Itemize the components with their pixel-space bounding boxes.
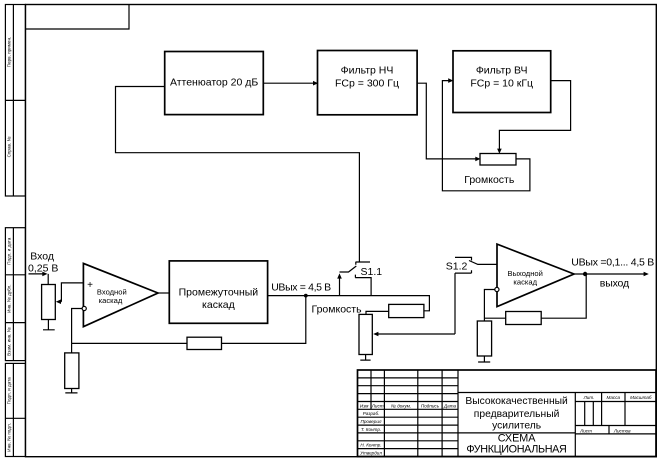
svg-text:Масштаб: Масштаб bbox=[630, 395, 652, 400]
svg-text:Подпись: Подпись bbox=[421, 403, 440, 408]
svg-text:Подп. и дата: Подп. и дата bbox=[7, 377, 12, 405]
svg-text:ФУНКЦИОНАЛЬНАЯ: ФУНКЦИОНАЛЬНАЯ bbox=[466, 444, 566, 456]
svg-text:выход: выход bbox=[600, 277, 629, 289]
svg-text:предварительный: предварительный bbox=[474, 409, 560, 420]
svg-text:UВых = 4,5 В: UВых = 4,5 В bbox=[271, 281, 331, 293]
svg-text:Громкость: Громкость bbox=[312, 304, 363, 316]
svg-text:Масса: Масса bbox=[607, 395, 621, 400]
svg-text:Фильтр НЧ: Фильтр НЧ bbox=[341, 64, 394, 76]
svg-text:+: + bbox=[87, 280, 93, 291]
svg-text:Вход: Вход bbox=[30, 251, 54, 263]
svg-text:Листов: Листов bbox=[613, 428, 631, 433]
svg-text:Лист: Лист bbox=[579, 428, 592, 433]
svg-text:Инв. № подл.: Инв. № подл. bbox=[7, 423, 12, 452]
svg-text:Аттенюатор 20 дБ: Аттенюатор 20 дБ bbox=[170, 77, 258, 89]
svg-text:S1.2: S1.2 bbox=[446, 261, 468, 273]
svg-text:Проверил: Проверил bbox=[361, 419, 382, 424]
svg-text:Разраб.: Разраб. bbox=[363, 411, 380, 416]
svg-text:Лист: Лист bbox=[371, 403, 384, 408]
svg-text:Высококачественный: Высококачественный bbox=[465, 396, 568, 407]
svg-text:№ докум.: № докум. bbox=[391, 403, 411, 408]
svg-text:Инв. № дубл.: Инв. № дубл. bbox=[7, 284, 12, 312]
svg-text:Промежуточный: Промежуточный bbox=[179, 286, 259, 298]
svg-text:Справ. №: Справ. № bbox=[7, 137, 12, 158]
svg-text:Громкость: Громкость bbox=[464, 174, 515, 186]
svg-text:S1.1: S1.1 bbox=[361, 266, 383, 278]
svg-text:Утвердил: Утвердил bbox=[360, 451, 382, 456]
svg-text:UВых =0,1... 4,5 В: UВых =0,1... 4,5 В bbox=[571, 256, 654, 268]
svg-text:Фильтр ВЧ: Фильтр ВЧ bbox=[476, 64, 528, 76]
svg-text:каскад: каскад bbox=[513, 278, 537, 287]
svg-text:Дата: Дата bbox=[443, 403, 457, 408]
svg-text:Лит.: Лит. bbox=[583, 395, 595, 400]
svg-text:Изм: Изм bbox=[360, 403, 369, 408]
svg-text:Входной: Входной bbox=[97, 288, 127, 297]
svg-text:Подп. и дата: Подп. и дата bbox=[7, 237, 12, 265]
svg-text:FCр = 300 Гц: FCр = 300 Гц bbox=[335, 77, 399, 89]
svg-text:Взам. инв. №: Взам. инв. № bbox=[7, 327, 12, 356]
svg-text:каскад: каскад bbox=[202, 299, 235, 311]
svg-text:FCр = 10 кГц: FCр = 10 кГц bbox=[470, 77, 533, 89]
svg-text:Перв. примен.: Перв. примен. bbox=[7, 37, 12, 68]
svg-text:СХЕМА: СХЕМА bbox=[498, 432, 537, 444]
svg-text:каскад: каскад bbox=[99, 296, 123, 305]
svg-text:усилитель: усилитель bbox=[492, 420, 541, 431]
svg-text:Н. Контр.: Н. Контр. bbox=[360, 443, 381, 448]
svg-text:Т. Контр.: Т. Контр. bbox=[361, 427, 381, 432]
